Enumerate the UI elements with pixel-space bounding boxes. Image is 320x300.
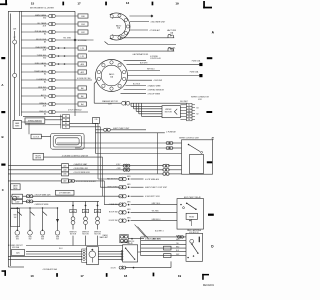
svg-text:MOTOR: MOTOR <box>165 112 173 114</box>
svg-text:GRN: GRN <box>127 176 130 178</box>
svg-text:GRN: GRN <box>127 217 130 219</box>
svg-text:A25: A25 <box>16 251 19 254</box>
svg-text:INSTRUMENT CLUSTER: INSTRUMENT CLUSTER <box>30 8 54 10</box>
svg-text:GRN BLK 4: GRN BLK 4 <box>152 219 161 221</box>
svg-text:4 SUB WIRE 4DR: 4 SUB WIRE 4DR <box>74 168 89 170</box>
svg-text:4 DOOR WIRE 4DR A22: 4 DOOR WIRE 4DR A22 <box>76 180 96 183</box>
svg-text:4DR 30A: 4DR 30A <box>12 246 20 249</box>
svg-text:YEL RED: YEL RED <box>152 211 160 213</box>
svg-text:4 RLY GRN A12: 4 RLY GRN A12 <box>68 109 82 112</box>
svg-text:A22: A22 <box>63 180 66 183</box>
svg-text:L19: L19 <box>81 48 84 50</box>
svg-text:C438: C438 <box>15 197 19 199</box>
svg-text:19: 19 <box>175 1 179 5</box>
svg-text:WHT BLU: WHT BLU <box>147 69 155 71</box>
svg-text:4 MIRROR WIRE: 4 MIRROR WIRE <box>35 204 50 206</box>
svg-text:B14: B14 <box>81 24 84 26</box>
svg-text:10: 10 <box>30 274 34 278</box>
svg-text:4 POWER MIR: 4 POWER MIR <box>59 193 71 195</box>
svg-text:A20: A20 <box>63 165 66 168</box>
svg-text:C45: C45 <box>95 119 98 121</box>
svg-text:4 IGN SW: 4 IGN SW <box>154 80 163 82</box>
svg-text:FUSE 10A: FUSE 10A <box>190 71 199 74</box>
svg-text:DOOR SW: DOOR SW <box>109 220 118 222</box>
svg-text:MOTOR: MOTOR <box>70 234 77 236</box>
svg-text:17: 17 <box>80 274 84 278</box>
svg-text:WIRE: WIRE <box>15 125 19 127</box>
svg-text:MOTOR: MOTOR <box>94 234 101 236</box>
svg-text:GRN: GRN <box>127 184 130 186</box>
svg-text:4 ANTI-THEFT CONT UNIT: 4 ANTI-THEFT CONT UNIT <box>145 186 168 189</box>
svg-text:L15: L15 <box>81 56 84 58</box>
svg-text:A3: A3 <box>44 112 46 115</box>
svg-text:CONTROL A9: CONTROL A9 <box>150 57 161 60</box>
svg-text:WIPER CONTROL UNIT: WIPER CONTROL UNIT <box>179 137 200 139</box>
svg-text:B4: B4 <box>197 108 199 110</box>
svg-text:BLU BLK: BLU BLK <box>133 84 141 86</box>
svg-text:FAN MOTOR: FAN MOTOR <box>107 177 118 180</box>
svg-text:BLU WHT: BLU WHT <box>180 101 188 103</box>
svg-text:B6: B6 <box>44 65 46 67</box>
svg-text:YEL: YEL <box>176 243 179 245</box>
svg-text:B4: B4 <box>65 123 67 125</box>
svg-text:SW: SW <box>16 239 19 241</box>
svg-text:GRN: GRN <box>84 211 87 213</box>
svg-text:BLK YEL: BLK YEL <box>169 48 176 50</box>
svg-text:GRN: GRN <box>71 211 74 213</box>
svg-text:A12: A12 <box>81 71 84 74</box>
svg-text:4 RADIO WIRE: 4 RADIO WIRE <box>148 84 162 87</box>
svg-text:SW: SW <box>56 239 59 241</box>
svg-text:B12: B12 <box>81 32 84 34</box>
svg-text:GRN: GRN <box>127 209 130 211</box>
svg-text:B2: B2 <box>65 127 67 129</box>
svg-text:B2: B2 <box>44 97 46 99</box>
svg-text:B6: B6 <box>65 120 67 122</box>
svg-text:19: 19 <box>178 274 182 278</box>
svg-text:A9: A9 <box>44 40 46 43</box>
svg-text:GRN: GRN <box>127 201 130 203</box>
svg-text:4 ALTERNATOR B1: 4 ALTERNATOR B1 <box>132 53 148 56</box>
svg-text:4 HTR WIRE A16: 4 HTR WIRE A16 <box>145 178 159 181</box>
svg-text:I/P: I/P <box>14 37 16 39</box>
svg-text:4 FUSE A22 30A: 4 FUSE A22 30A <box>43 268 58 271</box>
svg-text:A18: A18 <box>63 169 66 172</box>
svg-text:BLU WHT 4: BLU WHT 4 <box>155 230 164 232</box>
svg-text:4 BLOWER UNIT: 4 BLOWER UNIT <box>151 21 167 23</box>
svg-text:9ECA001: 9ECA001 <box>203 283 215 287</box>
svg-text:4 FUSE A9: 4 FUSE A9 <box>166 131 175 134</box>
svg-text:BLK WHT: BLK WHT <box>140 62 148 64</box>
svg-text:CLOCK: CLOCK <box>33 137 40 139</box>
svg-text:COMB SW: COMB SW <box>109 204 118 206</box>
svg-text:A1: A1 <box>44 80 46 83</box>
svg-text:SW: SW <box>41 239 44 241</box>
svg-text:13: 13 <box>126 1 130 5</box>
svg-text:ROOF SW: ROOF SW <box>109 212 118 214</box>
svg-text:15: 15 <box>31 2 35 6</box>
svg-text:A4: A4 <box>81 103 83 106</box>
svg-text:B4: B4 <box>44 73 46 75</box>
svg-text:B: B <box>2 135 4 139</box>
svg-text:GRN: GRN <box>96 211 99 213</box>
svg-text:4 TURN ALT: 4 TURN ALT <box>150 29 161 32</box>
svg-text:YEL GRN: YEL GRN <box>63 38 72 40</box>
svg-text:4 FUSE RLY A9: 4 FUSE RLY A9 <box>77 77 90 80</box>
svg-text:1S 2R: 1S 2R <box>111 268 117 270</box>
svg-text:4 ROOF WIRE: 4 ROOF WIRE <box>148 94 161 96</box>
svg-text:GRN YEL 4: GRN YEL 4 <box>152 203 161 205</box>
svg-text:4 SW: 4 SW <box>117 168 121 170</box>
svg-text:A6: A6 <box>81 95 83 98</box>
svg-text:FUSE 15A: FUSE 15A <box>192 60 201 63</box>
svg-text:B16: B16 <box>81 16 84 18</box>
svg-text:A8: A8 <box>81 87 83 90</box>
svg-text:BLK: BLK <box>176 250 179 252</box>
svg-text:B2: B2 <box>197 113 199 115</box>
svg-text:A16: A16 <box>63 173 66 176</box>
svg-text:4 SECURITY 4DR: 4 SECURITY 4DR <box>145 196 160 198</box>
svg-text:MOTOR: MOTOR <box>82 234 89 236</box>
svg-text:4 HEATED SEAT: 4 HEATED SEAT <box>74 163 89 166</box>
svg-text:MAST ANT: MAST ANT <box>100 236 108 239</box>
svg-text:4 ANTI THEFT UNIT: 4 ANTI THEFT UNIT <box>113 127 130 130</box>
svg-text:A14: A14 <box>81 63 84 66</box>
svg-text:GRN: GRN <box>176 239 179 241</box>
svg-text:18: 18 <box>124 274 128 278</box>
svg-text:4 DOOR WIRE 4DR: 4 DOOR WIRE 4DR <box>74 172 91 174</box>
svg-text:DEFOGGER: DEFOGGER <box>107 187 118 189</box>
svg-text:WHT: WHT <box>176 254 179 256</box>
svg-text:RADIO ANTENNA: RADIO ANTENNA <box>187 229 202 232</box>
svg-text:17: 17 <box>77 2 81 6</box>
svg-text:4 ECM A9: 4 ECM A9 <box>78 39 87 42</box>
svg-text:B8: B8 <box>65 116 67 118</box>
svg-text:B2: B2 <box>44 33 46 35</box>
svg-text:C437: C437 <box>15 202 19 204</box>
svg-text:4 SPEED SENSOR: 4 SPEED SENSOR <box>148 89 165 91</box>
svg-text:SW: SW <box>29 239 32 241</box>
svg-text:METER: METER <box>35 158 42 160</box>
